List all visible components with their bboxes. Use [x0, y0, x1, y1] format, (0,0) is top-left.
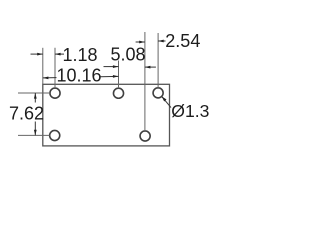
svg-text:7.62: 7.62: [9, 103, 44, 123]
svg-text:10.16: 10.16: [57, 66, 102, 86]
svg-text:Ø1.3: Ø1.3: [171, 101, 209, 121]
svg-text:1.18: 1.18: [63, 45, 98, 65]
svg-text:2.54: 2.54: [165, 31, 200, 51]
svg-text:5.08: 5.08: [111, 44, 146, 64]
